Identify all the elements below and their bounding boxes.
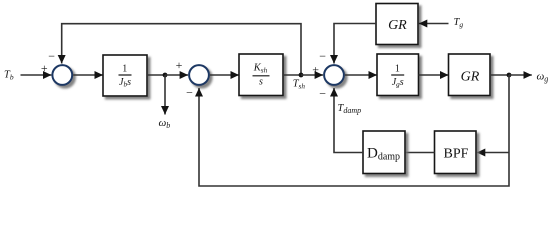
svg-text:+: + [312,62,319,76]
svg-text:−: − [319,49,326,63]
block GR (main path) [449,54,491,96]
summer S2 [189,65,209,85]
node junction wb [163,73,168,78]
wire: block 1/(Jb s) to node wb [147,74,165,76]
svg-text:1: 1 [122,63,127,74]
svg-text:GR: GR [388,18,407,33]
wire: node Tsh to summer S3 [301,74,323,76]
block 1/(Jb s) [103,55,147,96]
block GR (top, generator torque path) [376,4,418,45]
wire: block GR to node wg [490,74,509,76]
wire: block Ddamp up into summer S3 (Tdamp) [334,88,363,153]
wire: block BPF to block Ddamp [405,152,435,154]
svg-text:BPF: BPF [444,147,469,162]
svg-text:ωb: ωb [159,117,171,130]
svg-text:+: + [41,61,48,75]
wire: top block GR down into summer S3 [334,24,376,64]
node junction Tsh [299,73,304,78]
wire: block 1/(Jg s) to block GR [419,74,449,76]
svg-text:GR: GR [461,69,480,84]
wire: Tb input arrow into summer S1 [21,74,52,76]
wire: node wb to summer S2 [165,74,188,76]
wire: branch down to output wb [164,75,166,115]
summer S1 [52,65,72,85]
wire: summer S1 to block 1/(Jb s) [73,74,103,76]
summer S3 [324,65,344,85]
wire: bottom feedback from node wg to summer S2 [199,75,509,186]
svg-text:−: − [48,49,55,63]
wire: branch from wg feedback into block BPF [477,152,509,154]
svg-text:−: − [319,87,326,101]
node junction wg [507,73,512,78]
block Ddamp [363,131,405,174]
block BPF [435,131,477,174]
wire: block Ksh/s to node Tsh [283,74,301,76]
svg-text:−: − [186,85,193,99]
wire: summer S2 to block Ksh/s [210,74,239,76]
wire: top feedback from node Tsh up and over to summer S1 [62,24,301,74]
wire: Tg input arrow into top block GR [419,23,449,25]
svg-text:Tg: Tg [454,17,464,29]
svg-text:1: 1 [395,63,400,74]
svg-text:+: + [176,58,183,72]
svg-text:s: s [259,76,263,87]
block 1/(Jg s) [377,54,419,96]
wire: summer S3 to block 1/(Jg s) [345,74,377,76]
wire: node wg to output wg arrow [509,74,532,76]
svg-text:ωg: ωg [537,70,549,83]
svg-text:Tb: Tb [4,69,14,81]
svg-text:Tsh: Tsh [293,79,306,91]
svg-text:Tdamp: Tdamp [338,103,362,115]
block Ksh/s [239,54,283,96]
